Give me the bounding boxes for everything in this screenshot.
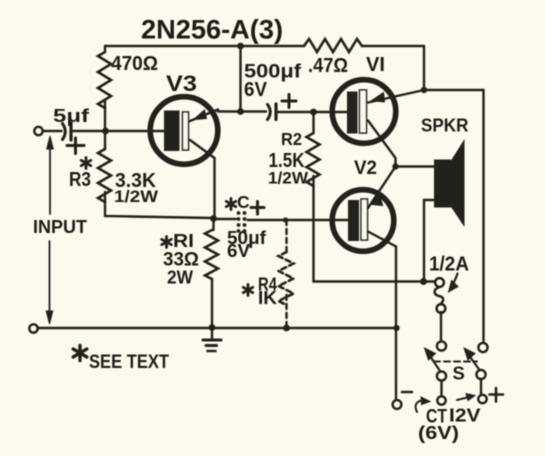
svg-text:1/2W: 1/2W [114, 187, 159, 206]
svg-text:IK: IK [258, 288, 277, 308]
resistor R1 33ohm zigzag [205, 230, 218, 279]
wire V3 collector vertical down [213, 158, 215, 218]
svg-text:RI: RI [173, 230, 194, 251]
12V arrow [457, 397, 469, 400]
fuse arrow [452, 274, 458, 286]
bottom rail [38, 327, 397, 329]
node dot top rail bias [237, 43, 244, 50]
svg-text:INPUT: INPUT [33, 217, 87, 237]
node dot bottom rail end [393, 325, 399, 331]
transistor V3 base bar [164, 111, 180, 152]
svg-text:VI: VI [366, 54, 385, 76]
capacitor 500uf plates [268, 105, 271, 120]
node dot input/470/R3 [102, 128, 109, 135]
star C [226, 199, 236, 210]
capacitor C dotted plates [237, 211, 247, 233]
switch left bottom circle [437, 371, 446, 380]
fuse bottom circle [437, 304, 446, 313]
resistor R3 lead top [104, 131, 106, 149]
svg-text:5μf: 5μf [53, 106, 90, 126]
wire V3 emitter to cap500 [218, 110, 266, 112]
minus sign [402, 391, 412, 394]
svg-text:C: C [237, 192, 250, 212]
plus terminal circle [478, 395, 486, 403]
svg-text:2N256-A(3): 2N256-A(3) [141, 15, 283, 45]
switch right blade arrowhead [464, 348, 475, 360]
switch right top circle [478, 343, 487, 352]
resistor R3 3.3K zigzag [98, 149, 111, 202]
plus sign battery [490, 393, 504, 396]
transistor V1 base bar 2 [360, 90, 367, 133]
wire V1 emitter node to right rail [424, 89, 484, 91]
svg-text:V3: V3 [166, 71, 197, 96]
wire 470 lead from corner [104, 46, 106, 52]
node dot V1 emitter / top rail [421, 87, 427, 93]
star R3 [81, 158, 91, 169]
input arrow upper head [47, 136, 54, 149]
plus sign 5uf [67, 144, 84, 147]
star SEE TEXT [73, 346, 87, 361]
input jack top (open circle) [34, 127, 42, 135]
wire speaker top [396, 165, 435, 167]
switch right blade [470, 356, 480, 370]
resistor R1 top lead [212, 218, 214, 230]
transistor V3 circle [150, 97, 218, 165]
ground symbol [211, 328, 213, 339]
resistor R4 1K dashed zigzag [279, 252, 294, 305]
wire input jack to cap [43, 130, 62, 132]
svg-text:1/2W: 1/2W [268, 170, 308, 188]
svg-text:S: S [453, 363, 465, 384]
resistor R 470ohm (vertical zigzag) [98, 52, 111, 108]
input jack bottom (open circle) [29, 324, 37, 332]
wire speaker bottom L [424, 200, 434, 282]
wire top rail right of resistor [362, 45, 424, 47]
capacitor 5uf plates [63, 124, 66, 140]
svg-text:6V: 6V [227, 241, 250, 261]
transistor V1 emitter diagonal [368, 90, 424, 103]
svg-text:6V: 6V [244, 79, 268, 101]
node dot R4 bottom [283, 325, 290, 332]
resistor R4 dashed top lead [285, 220, 287, 252]
wire bias vertical from top rail [239, 46, 241, 112]
input arrow lower line [49, 241, 51, 312]
wire top rail left [105, 45, 304, 47]
wire R3 bottom lead and run to emitter node [105, 192, 212, 218]
transistor V2 emitter arrowhead [371, 195, 383, 206]
speaker voice coil [434, 160, 451, 208]
star R1 [162, 237, 172, 248]
node dot speaker top [392, 163, 398, 169]
wire R2 bottom lead down and right to fuse [314, 176, 436, 282]
svg-text:.47Ω: .47Ω [308, 55, 348, 77]
svg-text:1/2A: 1/2A [429, 254, 469, 276]
resistor R2 1.5K zigzag [307, 133, 320, 186]
plus sign 500uf [282, 100, 296, 103]
wire node to cap C [214, 218, 236, 220]
transistor V3 base bar 2 [183, 112, 189, 150]
transistor V2 emitter diagonal [368, 167, 396, 209]
wire cap500 to V1 base [278, 111, 347, 113]
switch gang dashed line [434, 361, 477, 363]
transistor V3 collector diagonal [190, 140, 215, 158]
fuse squiggle [435, 288, 444, 305]
switch left blade [430, 356, 440, 371]
minus terminal (open circle) [393, 400, 402, 409]
svg-text:470Ω: 470Ω [111, 53, 158, 75]
node dot R4 top [283, 217, 288, 222]
CT curved arrow [416, 400, 426, 412]
transistor V2 base bar [348, 200, 359, 241]
wire top-right corner down [423, 46, 425, 90]
transistor V1 base bar [347, 92, 358, 134]
wire R1 bottom lead to ground rail [211, 279, 213, 328]
transistor V1 emitter arrowhead [372, 93, 385, 103]
input arrow upper line [49, 146, 51, 214]
plus sign cap C [251, 206, 264, 209]
svg-text:V2: V2 [354, 158, 377, 179]
svg-text:R2: R2 [281, 129, 302, 149]
node dot emitter/R1/C [210, 215, 217, 222]
node dot R2 top [310, 109, 317, 116]
wire cap C to V2 base [248, 219, 349, 221]
right rail down to switch [482, 90, 484, 343]
fuse top circle [435, 278, 444, 287]
node dot speaker bottom / fuse wire [420, 278, 427, 285]
wire V2 collector down to minus terminal [395, 247, 397, 400]
transistor V2 collector diagonal [368, 232, 396, 247]
transistor V3 emitter diagonal [190, 110, 218, 122]
speaker cone [451, 139, 465, 227]
switch right bottom circle [476, 370, 485, 379]
node dot bias/emitter wire [237, 108, 244, 115]
input arrow lower head [46, 311, 53, 324]
transistor V1 circle [332, 80, 396, 144]
transistor V2 circle [332, 190, 394, 252]
svg-text:(6V): (6V) [418, 422, 459, 443]
node dot ground [209, 324, 216, 331]
resistor .47ohm (horizontal zigzag) [304, 39, 362, 52]
resistor R4 dashed bottom lead [285, 295, 287, 328]
switch left blade arrowhead [425, 348, 436, 360]
resistor R2 top lead [312, 112, 314, 133]
wire switch right to plus terminal [480, 379, 482, 394]
svg-text:SPKR: SPKR [421, 115, 469, 136]
svg-text:SEE TEXT: SEE TEXT [89, 352, 169, 373]
transistor V1 collector diagonal [368, 121, 396, 167]
transistor V3 emitter arrowhead [194, 110, 207, 120]
CT terminal circle [437, 396, 445, 404]
svg-text:R3: R3 [69, 169, 91, 191]
wire fuse to switch [440, 312, 442, 341]
svg-text:2W: 2W [167, 268, 193, 288]
star R4 [243, 285, 253, 296]
wire cap to V3 base [73, 130, 165, 132]
transistor V2 base bar 2 [361, 199, 368, 240]
wire switch left to CT terminal [440, 381, 442, 397]
wire 470 bottom lead to input node [104, 100, 106, 131]
switch left top circle [437, 341, 446, 350]
